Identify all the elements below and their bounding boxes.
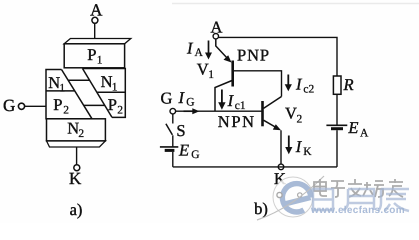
faint top border line	[172, 3, 419, 5]
current arrow I_G on wire	[178, 88, 200, 114]
svg-text:E: E	[178, 140, 189, 159]
日	[313, 189, 333, 210]
svg-text:2: 2	[297, 113, 303, 125]
label PNP	[237, 46, 270, 65]
node A (circuit)	[211, 18, 223, 39]
svg-text:V: V	[285, 104, 297, 123]
svg-text:c1: c1	[235, 100, 246, 112]
step junction H1	[68, 79, 90, 81]
battery E_G	[160, 140, 200, 167]
gate terminal G (circuit)	[161, 88, 176, 114]
caption b)	[254, 199, 268, 218]
current arrow I_A	[186, 39, 212, 60]
svg-text:a): a)	[70, 200, 83, 219]
current arrow I_c2	[285, 75, 315, 96]
svg-text:2: 2	[117, 105, 123, 117]
svg-text:b): b)	[254, 199, 268, 218]
svg-text:1: 1	[97, 55, 103, 67]
发	[348, 179, 362, 197]
layer P1 box (3D)	[64, 39, 131, 68]
svg-text:G: G	[161, 88, 173, 107]
svg-text:NPN: NPN	[218, 112, 256, 131]
transistor V2 collector wire	[264, 97, 282, 109]
wire R to battery E_A	[336, 94, 338, 125]
svg-text:P: P	[53, 95, 62, 114]
辰	[378, 189, 409, 211]
label V1	[197, 60, 214, 82]
battery E_A	[326, 118, 369, 167]
svg-text:A: A	[360, 128, 369, 140]
watermark text 日月辰 (blue)	[313, 189, 409, 211]
svg-text:PNP: PNP	[237, 46, 270, 65]
友	[389, 179, 403, 197]
svg-text:www.elecfans.com: www.elecfans.com	[310, 205, 405, 216]
layer N2 box (3D)	[47, 119, 106, 147]
svg-text:P: P	[87, 45, 96, 64]
wire G to V2 base	[176, 110, 262, 112]
resistor R	[333, 75, 353, 95]
svg-text:G: G	[191, 149, 199, 161]
transistor V1 base bar	[231, 61, 234, 87]
caption a)	[70, 200, 83, 219]
watermark text 电子发烧友 (gray)	[314, 179, 403, 197]
diagonal split D2	[83, 69, 113, 118]
diagonal split D1	[62, 70, 93, 119]
transistor V1 collector wire	[215, 81, 232, 111]
node K (circuit)	[274, 164, 286, 188]
gate terminal G (diagram a)	[3, 96, 25, 115]
svg-text:1: 1	[112, 81, 118, 93]
label NPN	[218, 112, 256, 131]
switch S	[166, 114, 186, 147]
transistor V1 (PNP) emitter wire + arrow	[216, 39, 232, 63]
svg-text:G: G	[3, 96, 15, 115]
svg-text:A: A	[195, 47, 204, 59]
子	[331, 181, 345, 197]
label V2	[285, 104, 303, 126]
transistor V2 base bar	[261, 101, 264, 126]
svg-text:2: 2	[78, 128, 84, 140]
right column layers N1/P2	[83, 69, 126, 118]
svg-text:E: E	[347, 118, 358, 137]
watermark url www.elecfans.com	[310, 205, 405, 216]
svg-text:1: 1	[59, 83, 65, 95]
烧	[363, 181, 384, 197]
node K (cathode terminal, diagram a)	[69, 147, 82, 188]
left column layers N1/P2	[46, 70, 92, 119]
电	[314, 179, 327, 196]
svg-text:2: 2	[63, 105, 69, 117]
月	[343, 189, 374, 210]
svg-text:A: A	[90, 1, 103, 20]
step junction H2	[84, 104, 105, 106]
current arrow I_c1	[218, 90, 246, 113]
svg-text:K: K	[69, 169, 82, 188]
svg-text:S: S	[176, 121, 185, 140]
svg-text:K: K	[303, 146, 312, 158]
svg-text:R: R	[343, 75, 354, 94]
transistor V2 emitter wire + arrow	[264, 120, 282, 164]
svg-text:c2: c2	[303, 83, 314, 95]
svg-text:G: G	[186, 96, 194, 108]
current arrow I_K	[285, 136, 312, 158]
node A (anode terminal, diagram a)	[90, 1, 103, 24]
svg-text:V: V	[197, 60, 209, 79]
wire V1 base to V2 collector	[234, 71, 282, 97]
wire A to R branch (top)	[219, 37, 338, 76]
wire A to P1 layer	[94, 23, 96, 38]
svg-text:1: 1	[208, 69, 214, 81]
watermark logo circle	[257, 176, 324, 220]
bottom wire K rail	[173, 166, 337, 168]
wire G to P2 layer	[25, 105, 46, 107]
